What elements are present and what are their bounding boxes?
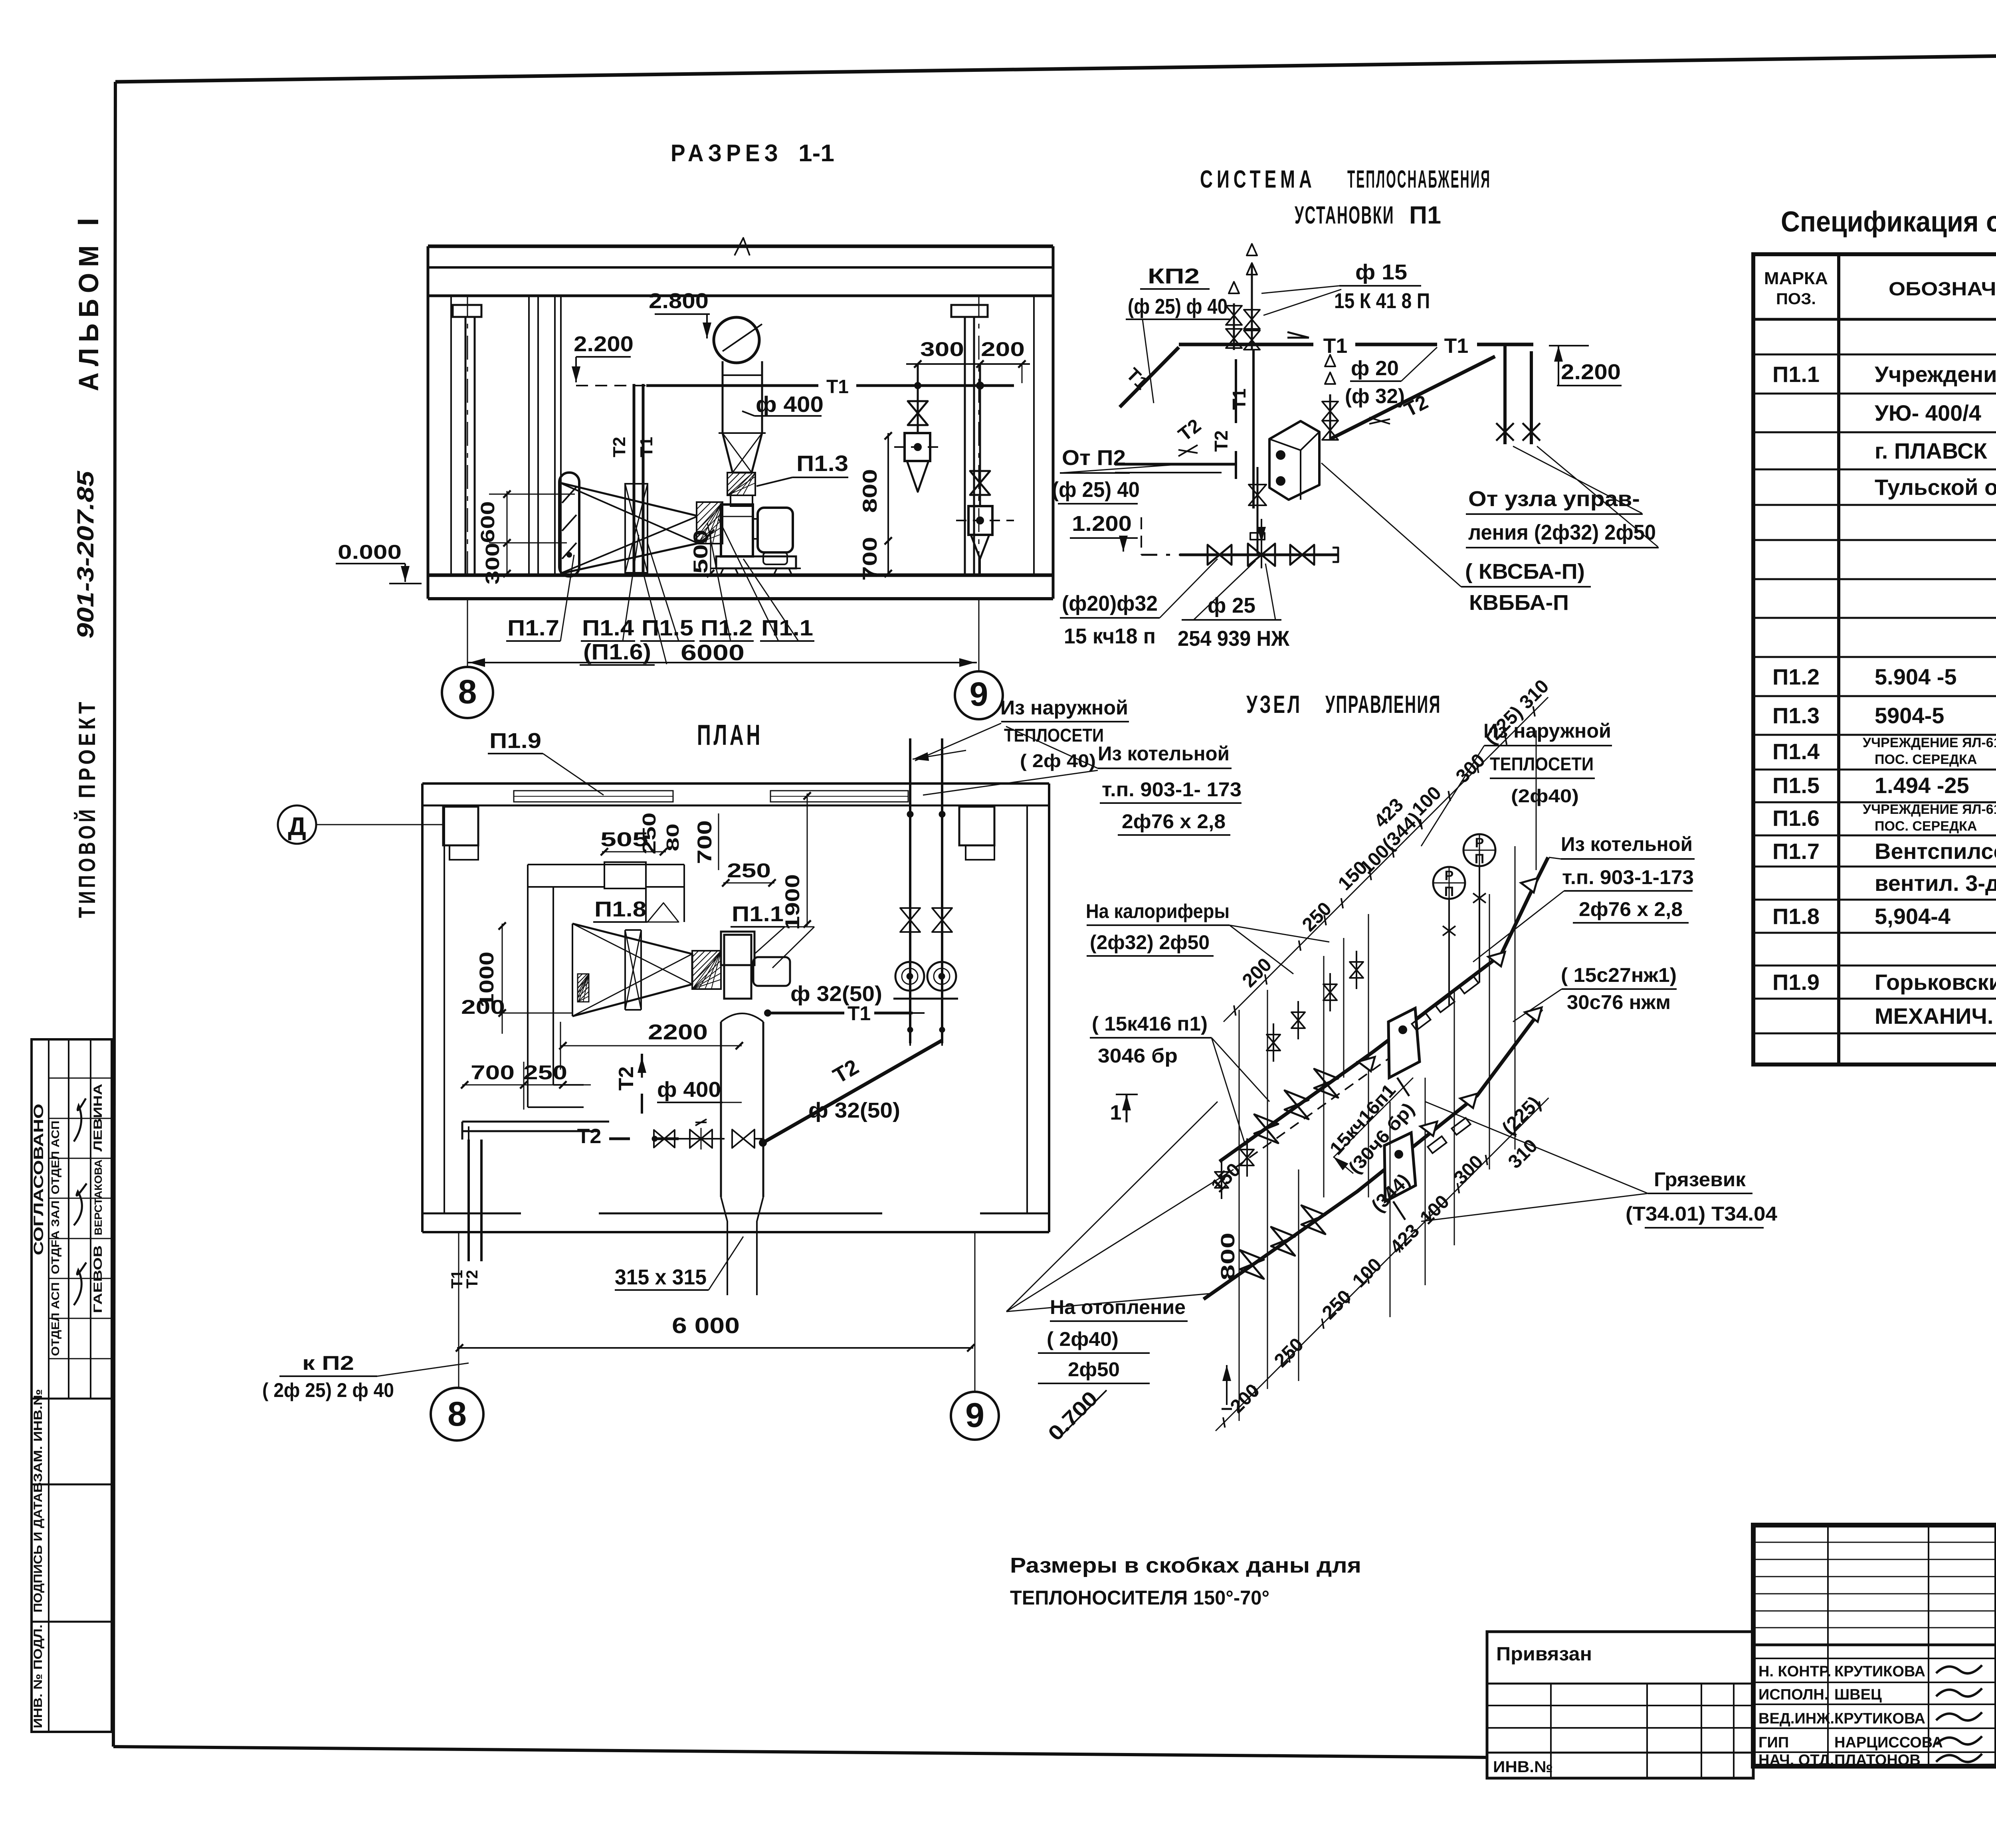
flexible insert P1.3 [727, 473, 755, 495]
svg-text:УСТАНОВКИ: УСТАНОВКИ [1295, 202, 1394, 229]
axis circle 8 bottom [431, 1388, 483, 1440]
valve on iso pipe T1 [1285, 1090, 1309, 1119]
section room ceiling [428, 245, 1053, 248]
riser pipes T2 T1 [633, 384, 636, 575]
fan vibro base [716, 556, 796, 568]
svg-text:30с76 нжм: 30с76 нжм [1567, 991, 1671, 1013]
pipe T1 horizontal [646, 384, 818, 387]
svg-text:П1: П1 [1409, 202, 1441, 229]
right riser pair down [1503, 344, 1507, 444]
svg-text:П1.8: П1.8 [594, 897, 646, 921]
svg-text:вентил. 3-д: вентил. 3-д [1875, 871, 1996, 896]
flexible insert P1.2 [697, 502, 723, 544]
svg-text:ШВЕЦ: ШВЕЦ [1834, 1686, 1882, 1703]
svg-text:П1.2: П1.2 [1772, 664, 1820, 689]
svg-text:На калориферы: На калориферы [1086, 900, 1230, 922]
svg-text:П1.1: П1.1 [732, 902, 784, 926]
svg-text:УЮ- 400/4: УЮ- 400/4 [1875, 400, 1981, 425]
svg-text:П1.7: П1.7 [1772, 839, 1820, 864]
svg-text:ПОС. СЕРЕДКА: ПОС. СЕРЕДКА [1875, 752, 1977, 767]
plan duct f400 down [721, 1013, 763, 1022]
svg-text:ОБОЗНАЧЕНИЕ: ОБОЗНАЧЕНИЕ [1889, 279, 1996, 300]
svg-text:НАРЦИССОВА: НАРЦИССОВА [1834, 1734, 1943, 1751]
svg-text:УЧРЕЖДЕНИЕ ЯЛ-61/4: УЧРЕЖДЕНИЕ ЯЛ-61/4 [1863, 735, 1996, 750]
svg-text:( 15с27нж1): ( 15с27нж1) [1561, 964, 1677, 986]
section left wall [427, 246, 430, 599]
T2 diagonal to control unit [1330, 356, 1495, 439]
svg-text:НАЧ. ОТД.: НАЧ. ОТД. [1758, 1752, 1834, 1769]
axis circle D [278, 805, 316, 844]
svg-text:Т1: Т1 [826, 376, 849, 398]
svg-text:ВЕД.ИНЖ.: ВЕД.ИНЖ. [1758, 1710, 1834, 1727]
svg-text:1-1: 1-1 [798, 140, 834, 166]
plan pipe T2 diagonal [763, 1041, 942, 1143]
fan inlet stub [731, 495, 752, 506]
svg-text:Тульской обл.: Тульской обл. [1875, 475, 1996, 500]
stamp left grid [1753, 1542, 1996, 1543]
air valve P1.7 [559, 473, 579, 576]
iso corner flags [1488, 952, 1505, 966]
plan pipe T1 [768, 1012, 844, 1015]
svg-text:(2ф32) 2ф50: (2ф32) 2ф50 [1090, 931, 1210, 954]
stamp outer [1753, 1525, 1996, 1766]
svg-text:ПЛАН: ПЛАН [697, 719, 763, 751]
svg-text:(П1.6): (П1.6) [583, 639, 651, 664]
valve on iso pipe T1 [1254, 1114, 1278, 1143]
svg-text:(ф 25) ф 40: (ф 25) ф 40 [1128, 295, 1228, 319]
svg-text:( 2ф40): ( 2ф40) [1047, 1328, 1119, 1350]
duct elbow circle f400 [714, 317, 759, 363]
vertical duct f400 [722, 361, 724, 433]
svg-text:5.904 -5: 5.904 -5 [1875, 664, 1957, 689]
svg-text:П1.1: П1.1 [761, 615, 813, 640]
svg-text:Р: Р [1445, 868, 1454, 883]
svg-text:Горьковский: Горьковский [1875, 970, 1996, 995]
iso vertical drop lines [1239, 1010, 1240, 1421]
svg-text:3046 бр: 3046 бр [1098, 1045, 1178, 1067]
plan door P1.8 [604, 862, 646, 888]
svg-text:Из котельной: Из котельной [1098, 742, 1230, 765]
valve stack right of heater [1329, 394, 1331, 439]
svg-text:ВЕРСТАКОВА: ВЕРСТАКОВА [92, 1159, 104, 1235]
svg-text:ТЕПЛОНОСИТЕЛЯ 150°-70°: ТЕПЛОНОСИТЕЛЯ 150°-70° [1010, 1587, 1269, 1609]
svg-text:Грязевик: Грязевик [1654, 1168, 1746, 1191]
svg-text:Спецификация отопительно- в: Спецификация отопительно- вентиляционных… [1781, 206, 1996, 238]
svg-text:600: 600 [477, 501, 499, 543]
dash riser at bottom pipe left [1141, 517, 1142, 555]
plan air duct channel [528, 864, 684, 865]
section right wall [1052, 246, 1055, 599]
svg-text:ВЗАМ. ИНВ.№: ВЗАМ. ИНВ.№ [32, 1389, 45, 1493]
small end box [1250, 533, 1265, 540]
svg-text:(ф20)ф32: (ф20)ф32 [1062, 592, 1158, 615]
svg-text:ОТДЕЛ АСП: ОТДЕЛ АСП [49, 1282, 61, 1356]
iso branch valves cluster [1273, 1023, 1274, 1062]
svg-text:ОТДFА ЗАЛ: ОТДFА ЗАЛ [49, 1201, 61, 1274]
svg-text:Т1: Т1 [1323, 334, 1348, 358]
svg-text:6000: 6000 [681, 640, 745, 665]
svg-text:Т2: Т2 [615, 1066, 638, 1091]
svg-text:( 15к416 п1): ( 15к416 п1) [1092, 1013, 1208, 1035]
svg-text:КРУТИКОВА: КРУТИКОВА [1834, 1663, 1925, 1680]
svg-text:ф 32(50): ф 32(50) [790, 982, 882, 1006]
svg-text:Р: Р [1475, 835, 1484, 851]
sheet frame border [115, 48, 1996, 82]
svg-text:Т1: Т1 [1229, 388, 1249, 410]
svg-text:П1.8: П1.8 [1772, 904, 1820, 929]
plan outer walls [422, 782, 1049, 785]
svg-text:2ф50: 2ф50 [1068, 1358, 1120, 1381]
svg-text:15 К 41 8 П: 15 К 41 8 П [1334, 289, 1430, 313]
svg-text:700: 700 [693, 820, 716, 864]
svg-text:ПЛАТОНОВ: ПЛАТОНОВ [1834, 1752, 1921, 1769]
svg-text:т.п. 903-1-173: т.п. 903-1-173 [1562, 866, 1694, 888]
svg-text:ф 20: ф 20 [1351, 357, 1399, 380]
elevation 2.200 (system) [1558, 346, 1559, 364]
svg-text:1.200: 1.200 [1072, 512, 1132, 536]
spec table grid [1753, 254, 1996, 1064]
plan window openings top wall [514, 791, 673, 802]
svg-text:2.800: 2.800 [649, 289, 709, 313]
svg-text:2.200: 2.200 [574, 332, 634, 356]
svg-text:1.494 -25: 1.494 -25 [1875, 773, 1969, 798]
iso upper dimension line [1224, 697, 1548, 1022]
svg-text:I: I [71, 218, 105, 226]
svg-text:0.000: 0.000 [338, 541, 402, 563]
right pipe strainer branch 1 [917, 364, 919, 433]
iso lower dimension line [1216, 1098, 1548, 1431]
svg-text:РАЗРЕЗ: РАЗРЕЗ [671, 140, 782, 166]
plan horn and heater [572, 924, 692, 1016]
svg-text:П1.1: П1.1 [1772, 362, 1820, 387]
svg-text:6 000: 6 000 [672, 1313, 740, 1338]
svg-text:5,904-4: 5,904-4 [1875, 904, 1950, 929]
svg-text:( 2ф 25) 2 ф 40: ( 2ф 25) 2 ф 40 [262, 1379, 394, 1401]
section room floor [428, 574, 1053, 577]
svg-text:ИНВ.№: ИНВ.№ [1493, 1758, 1553, 1776]
svg-text:ЛЕВИНА: ЛЕВИНА [91, 1084, 105, 1152]
iso mud trap lower [1384, 1133, 1416, 1201]
svg-text:8: 8 [458, 673, 477, 710]
plan left pipes kP2 [467, 1140, 470, 1261]
valve stack on riser (air vents) [1233, 303, 1235, 350]
svg-text:МАРКА: МАРКА [1764, 269, 1828, 288]
section left column [453, 305, 481, 317]
svg-text:300: 300 [482, 543, 503, 585]
svg-text:ИСПОЛН.: ИСПОЛН. [1758, 1686, 1828, 1703]
svg-text:ИНВ. № ПОДЛ.: ИНВ. № ПОДЛ. [32, 1624, 45, 1728]
svg-text:Т1: Т1 [637, 437, 656, 457]
svg-text:ления (2ф32) 2ф50: ления (2ф32) 2ф50 [1468, 520, 1656, 544]
svg-text:ТЕПЛОСЕТИ: ТЕПЛОСЕТИ [1490, 754, 1594, 774]
approval side table [32, 1039, 112, 1732]
svg-text:СОГЛАСОВАНО: СОГЛАСОВАНО [31, 1104, 46, 1255]
svg-text:901-3-207.85: 901-3-207.85 [73, 471, 99, 639]
svg-text:Учреждение: Учреждение [1875, 362, 1996, 387]
svg-text:Т2: Т2 [463, 1270, 481, 1289]
svg-text:Т2: Т2 [610, 437, 629, 457]
svg-text:ПОЗ.: ПОЗ. [1776, 290, 1816, 308]
svg-text:Т1: Т1 [1444, 334, 1469, 358]
iso pipe T1 [1220, 857, 1548, 1161]
axis circle 9 bottom [951, 1392, 999, 1440]
privyazan table [1487, 1632, 1753, 1778]
svg-text:2ф76 х 2,8: 2ф76 х 2,8 [1579, 898, 1683, 920]
svg-text:КП2: КП2 [1148, 264, 1200, 288]
svg-text:ПОДПИСЬ И ДАТА: ПОДПИСЬ И ДАТА [32, 1493, 45, 1613]
svg-text:315 х 315: 315 х 315 [615, 1265, 707, 1289]
svg-text:(2ф40): (2ф40) [1511, 785, 1579, 806]
svg-text:П1.5: П1.5 [1772, 773, 1820, 798]
pipe T1 main horizontal [1179, 343, 1313, 346]
svg-text:80: 80 [663, 823, 683, 851]
pipe T1 diagonal from P2 [1120, 347, 1179, 407]
svg-text:П1.5: П1.5 [642, 615, 693, 640]
svg-text:П1.3: П1.3 [1772, 703, 1820, 728]
svg-text:(ф 25) 40: (ф 25) 40 [1052, 478, 1140, 502]
svg-text:П1.6: П1.6 [1772, 805, 1820, 831]
svg-text:ГАЕВОВ: ГАЕВОВ [91, 1245, 105, 1313]
svg-text:Т2: Т2 [577, 1125, 602, 1148]
duct cone transition [723, 433, 762, 473]
svg-text:( 2ф 40): ( 2ф 40) [1020, 750, 1096, 771]
valve on iso pipe T2 [1301, 1205, 1325, 1234]
svg-text:Из котельной: Из котельной [1561, 833, 1693, 855]
svg-text:2ф76 х 2,8: 2ф76 х 2,8 [1122, 810, 1226, 833]
svg-text:ТЕПЛОСНАБЖЕНИЯ: ТЕПЛОСНАБЖЕНИЯ [1347, 166, 1491, 193]
svg-text:СИСТЕМА: СИСТЕМА [1200, 166, 1316, 193]
svg-text:2.200: 2.200 [1561, 360, 1621, 384]
svg-text:ГИП: ГИП [1758, 1734, 1789, 1751]
svg-text:ф 25: ф 25 [1208, 594, 1255, 617]
riser T1 T2 vertical center [1252, 350, 1255, 508]
heater cross P1.4 [562, 484, 697, 543]
svg-text:700: 700 [471, 1061, 515, 1084]
svg-text:КВББА-П: КВББА-П [1469, 591, 1569, 615]
svg-text:250: 250 [523, 1061, 567, 1084]
svg-text:9: 9 [970, 675, 988, 713]
svg-text:к П2: к П2 [302, 1352, 354, 1374]
svg-text:Т2: Т2 [1211, 430, 1232, 452]
svg-text:ф 15: ф 15 [1355, 260, 1407, 284]
svg-text:700: 700 [859, 537, 881, 581]
svg-text:Привязан: Привязан [1496, 1644, 1592, 1665]
svg-text:ТИПОВОЙ: ТИПОВОЙ [74, 806, 100, 918]
leader from teploset label to plan risers [915, 723, 1001, 761]
svg-text:ф 400: ф 400 [756, 392, 824, 417]
plan risers right pair [909, 738, 911, 1043]
plan left duct L pipes [462, 1121, 609, 1123]
plan flexible insert [692, 951, 721, 989]
axis dash-dot lines through section [467, 296, 468, 575]
svg-text:250: 250 [639, 813, 659, 855]
svg-text:П1.9: П1.9 [489, 729, 541, 753]
svg-text:КРУТИКОВА: КРУТИКОВА [1834, 1710, 1925, 1727]
svg-text:П1.7: П1.7 [507, 615, 559, 640]
svg-text:Вентспилсский: Вентспилсский [1875, 839, 1996, 864]
svg-text:т.п. 903-1- 173: т.п. 903-1- 173 [1102, 778, 1242, 801]
svg-text:Д: Д [288, 812, 306, 841]
svg-text:УЗЕЛ: УЗЕЛ [1246, 691, 1302, 718]
iso mud trap upper [1388, 1008, 1420, 1078]
svg-text:15 кч18 п: 15 кч18 п [1064, 624, 1156, 648]
plan fan unit P1.1 [724, 935, 751, 999]
valve on iso pipe T2 [1271, 1227, 1295, 1256]
heater KVB6A-P box [1269, 421, 1319, 500]
valve on iso pipe T1 [1314, 1069, 1338, 1098]
svg-text:На отопление: На отопление [1050, 1296, 1186, 1318]
svg-text:200: 200 [981, 338, 1025, 360]
svg-text:1900: 1900 [781, 874, 804, 930]
plan grille hatch [578, 974, 589, 1002]
svg-text:(Т34.01) Т34.04: (Т34.01) Т34.04 [1626, 1203, 1777, 1225]
svg-text:От П2: От П2 [1062, 446, 1126, 470]
svg-text:(ф 32): (ф 32) [1345, 385, 1405, 408]
svg-text:254 939 НЖ: 254 939 НЖ [1178, 627, 1290, 651]
section wall shafts [528, 296, 530, 575]
svg-text:Размеры в скобках даны д: Размеры в скобках даны для [1010, 1553, 1361, 1577]
svg-text:200: 200 [461, 996, 505, 1018]
iso instrument circles P [1448, 899, 1450, 1006]
axis circle 9 (top) [955, 671, 1003, 719]
svg-text:ф 32(50): ф 32(50) [808, 1098, 900, 1122]
svg-text:ТЕПЛОСЕТИ: ТЕПЛОСЕТИ [1004, 725, 1104, 746]
svg-text:800: 800 [1218, 1233, 1239, 1280]
leader fan to iso from na otoplenie [1006, 1102, 1218, 1312]
right pipe strainer branch 2 [979, 364, 981, 506]
svg-text:Н. КОНТР.: Н. КОНТР. [1758, 1663, 1831, 1680]
svg-text:УЧРЕЖДЕНИЕ ЯЛ-61/4: УЧРЕЖДЕНИЕ ЯЛ-61/4 [1863, 802, 1996, 817]
svg-text:МЕХАНИЧ. 3-Д: МЕХАНИЧ. 3-Д [1875, 1003, 1996, 1029]
fan P1.1 casing [721, 505, 753, 556]
svg-text:ОТДЕЛ АСП: ОТДЕЛ АСП [49, 1121, 61, 1195]
svg-text:ф 400: ф 400 [657, 1078, 721, 1102]
svg-text:1: 1 [1110, 1101, 1122, 1124]
valve below heater [1257, 467, 1259, 535]
svg-text:П: П [1444, 884, 1454, 899]
axis circle 8 (top) [442, 667, 493, 718]
leader lines to tags [560, 555, 574, 641]
svg-text:5904-5: 5904-5 [1875, 703, 1944, 728]
iso connection squares on pipe [1412, 1013, 1430, 1030]
svg-text:П1.3: П1.3 [796, 451, 848, 476]
bottom pipe with valves [1141, 554, 1180, 556]
svg-text:г. ПЛАВСК: г. ПЛАВСК [1875, 438, 1988, 463]
svg-text:9: 9 [965, 1396, 984, 1434]
valve on iso pipe T2 [1240, 1250, 1264, 1279]
svg-text:300: 300 [920, 338, 964, 360]
section right column [951, 305, 988, 317]
svg-text:П1.4: П1.4 [1772, 739, 1820, 764]
svg-text:8: 8 [448, 1395, 467, 1433]
T2 pipe left horizontal [1115, 463, 1236, 466]
svg-text:АЛЬБОМ: АЛЬБОМ [73, 239, 104, 391]
svg-text:П1.9: П1.9 [1772, 970, 1820, 995]
svg-text:2200: 2200 [648, 1020, 708, 1044]
svg-text:250: 250 [727, 859, 771, 882]
svg-text:Из наружной: Из наружной [1000, 696, 1128, 719]
fan motor [758, 508, 793, 552]
svg-text:УПРАВЛЕНИЯ: УПРАВЛЕНИЯ [1325, 691, 1441, 718]
svg-text:( КВСБА-П): ( КВСБА-П) [1465, 560, 1585, 584]
svg-text:П: П [1475, 851, 1484, 867]
plan columns [443, 807, 478, 845]
svg-text:ПОС. СЕРЕДКА: ПОС. СЕРЕДКА [1875, 819, 1977, 834]
iso pipe T2 [1204, 1009, 1542, 1299]
svg-text:800: 800 [859, 469, 881, 513]
intake horn cone [561, 483, 697, 516]
side table signatures [74, 1098, 86, 1142]
svg-text:ПРОЕКТ: ПРОЕКТ [74, 698, 100, 798]
svg-text:Из наружной: Из наружной [1483, 720, 1611, 742]
